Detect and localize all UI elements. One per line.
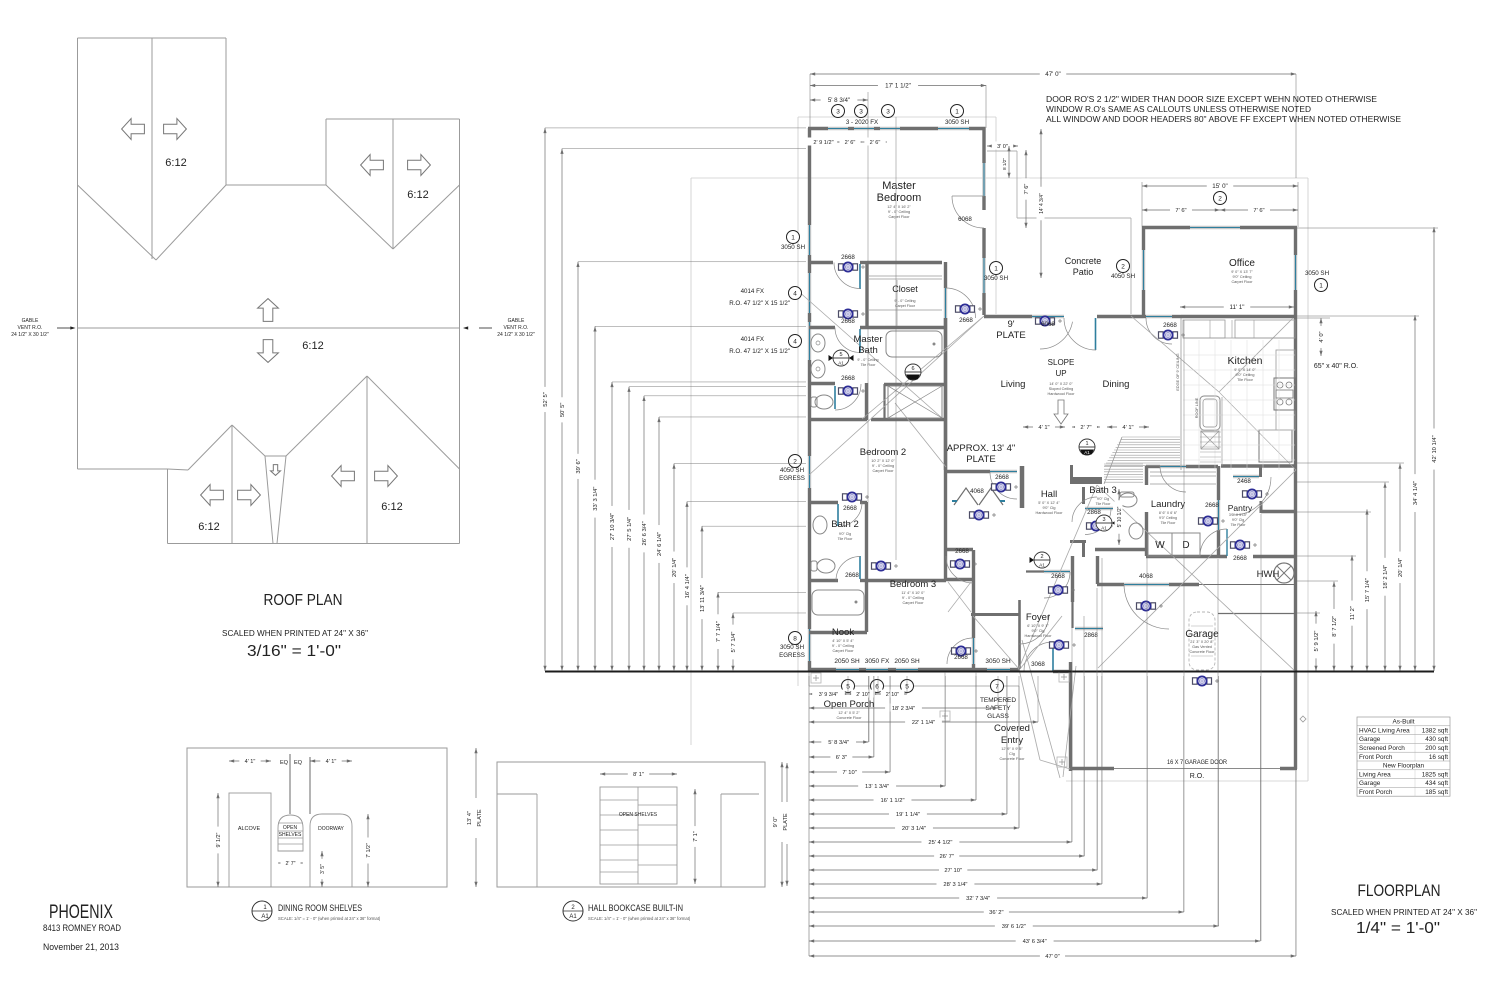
- bedroom2/3 separator: [867, 579, 946, 582]
- window 4050 SH office west: [1142, 250, 1145, 290]
- svg-text:430 sqft: 430 sqft: [1425, 736, 1448, 743]
- svg-text:9'0" Ceiling: 9'0" Ceiling: [1233, 275, 1252, 279]
- svg-text:Tile Floor: Tile Floor: [838, 537, 854, 541]
- svg-text:3/16" = 1'-0": 3/16" = 1'-0": [247, 643, 341, 660]
- garage south wall + garage door: [1070, 767, 1114, 770]
- svg-text:R.O. 47 1/2" X 15 1/2": R.O. 47 1/2" X 15 1/2": [729, 348, 790, 355]
- window 3050 SH north: [938, 127, 969, 130]
- svg-text:OPEN: OPEN: [283, 825, 298, 831]
- closet north wall: [867, 261, 942, 264]
- hall south wall: [946, 548, 973, 551]
- bath2 south wall: [809, 579, 838, 582]
- window 4050 SH egress bedroom2: [808, 456, 811, 488]
- blue door symbol 2: [839, 309, 858, 318]
- blue door symbol 11: [992, 482, 1011, 491]
- east exterior wall kitchen/garage: [1294, 318, 1297, 769]
- svg-text:2' 10": 2' 10": [886, 692, 900, 698]
- door arc garage 4068: [1124, 584, 1169, 629]
- door 4068 blue threshold: [1124, 583, 1169, 586]
- top dimension 47ft: [809, 74, 811, 128]
- door arc bath3: [1085, 509, 1111, 535]
- svg-text:7' 6": 7' 6": [1253, 208, 1264, 214]
- svg-text:24 1/2" X 30 1/2": 24 1/2" X 30 1/2": [11, 332, 49, 338]
- svg-text:6068: 6068: [958, 216, 972, 223]
- svg-text:11' 2": 11' 2": [1350, 606, 1356, 620]
- svg-text:18' 2 3/4": 18' 2 3/4": [892, 706, 915, 712]
- svg-text:Front Porch: Front Porch: [1359, 754, 1393, 761]
- svg-text:Screened Porch: Screened Porch: [1359, 745, 1405, 752]
- svg-text:Front Porch: Front Porch: [1359, 789, 1393, 796]
- svg-text:36' 2": 36' 2": [989, 910, 1003, 916]
- svg-text:9' - 0" Ceiling: 9' - 0" Ceiling: [888, 210, 910, 214]
- svg-text:8' 1": 8' 1": [633, 772, 644, 778]
- right gable ridge: [392, 119, 394, 249]
- svg-text:26' 7": 26' 7": [939, 854, 953, 860]
- svg-text:7' 1/2": 7' 1/2": [366, 843, 372, 858]
- svg-text:17' 1 1/2": 17' 1 1/2": [885, 83, 911, 90]
- svg-text:5' 10 1/2": 5' 10 1/2": [1117, 506, 1123, 527]
- wall hallway north: [809, 261, 833, 264]
- door arc bed3 b: [946, 556, 973, 583]
- top dimension 5-8.75: [867, 92, 869, 502]
- left gable ridge: [151, 38, 153, 259]
- toilet room east wall: [865, 383, 868, 420]
- svg-text:FLOORPLAN: FLOORPLAN: [1358, 882, 1441, 900]
- svg-text:7' 10": 7' 10": [842, 770, 856, 776]
- svg-text:4' 1": 4' 1": [1122, 425, 1133, 431]
- svg-text:27' 10 3/4": 27' 10 3/4": [610, 513, 616, 540]
- bottom-left gable: [231, 425, 233, 544]
- door arc toilet room: [835, 384, 861, 410]
- hall closet bifold doors 4068: [954, 488, 978, 505]
- door arc hall-foyer: [1044, 572, 1070, 598]
- svg-text:34' 4 1/4": 34' 4 1/4": [1413, 481, 1419, 505]
- svg-text:7' 6": 7' 6": [1024, 184, 1030, 195]
- svg-text:Master: Master: [882, 180, 916, 192]
- window 2050 SH b: [896, 668, 918, 671]
- svg-text:PLATE: PLATE: [783, 813, 789, 831]
- door 2868 bath3: [1085, 507, 1113, 510]
- bottom window callouts: [842, 680, 855, 693]
- svg-text:VENT R.O.: VENT R.O.: [504, 325, 529, 331]
- window 4050 SH office north: [1190, 226, 1240, 229]
- door arc hallway 2668: [834, 263, 860, 289]
- svg-text:32' 7 3/4": 32' 7 3/4": [966, 896, 990, 902]
- svg-text:65" x 40" R.O.: 65" x 40" R.O.: [1314, 363, 1358, 370]
- door arc living-hall: [990, 472, 1017, 499]
- svg-text:A1: A1: [838, 361, 844, 366]
- wall closet/bedroom east: [944, 262, 947, 288]
- svg-text:ALCOVE: ALCOVE: [238, 826, 261, 832]
- svg-text:4' 1": 4' 1": [1038, 425, 1049, 431]
- slope arrow hollow: [1054, 400, 1068, 424]
- svg-text:16 X 7 GARAGE DOOR: 16 X 7 GARAGE DOOR: [1167, 759, 1227, 766]
- svg-text:4' 10" X 5' 4": 4' 10" X 5' 4": [832, 639, 854, 643]
- svg-text:Tile Floor: Tile Floor: [1237, 378, 1253, 382]
- svg-text:27' 10": 27' 10": [944, 868, 962, 874]
- roof plan outline: [78, 37, 227, 39]
- laundry north wall: [1146, 465, 1160, 468]
- svg-text:2' 7": 2' 7": [285, 861, 295, 867]
- svg-text:4: 4: [793, 290, 797, 297]
- bath3 toilet: [1119, 493, 1137, 507]
- svg-text:PHOENIX: PHOENIX: [49, 902, 113, 923]
- slider 6068 at living: [1032, 315, 1064, 318]
- svg-text:4068: 4068: [1139, 573, 1153, 580]
- window 3050 SH east master bedroom: [982, 258, 985, 293]
- svg-text:SAFETY: SAFETY: [985, 705, 1011, 712]
- svg-text:Kitchen: Kitchen: [1227, 355, 1262, 367]
- bath2 sink: [813, 516, 827, 534]
- master bath south wall: [809, 418, 867, 421]
- right side extension lines: [1294, 317, 1330, 319]
- garage west exterior wall lower: [1069, 662, 1072, 771]
- office west wall: [1142, 227, 1145, 250]
- closet shelves lines: [869, 275, 942, 277]
- svg-text:Garage: Garage: [1185, 629, 1219, 640]
- door arc master bath: [835, 328, 860, 353]
- svg-text:Laundry: Laundry: [1151, 499, 1186, 510]
- svg-text:R.O. 47 1/2" X 15 1/2": R.O. 47 1/2" X 15 1/2": [729, 300, 790, 307]
- section marker 3/A1 bath3: [1096, 515, 1117, 531]
- blue door symbol 9: [1036, 316, 1055, 325]
- door 2668 living-hall: [990, 470, 1017, 473]
- svg-text:16' 1 1/2": 16' 1 1/2": [880, 798, 904, 804]
- washer dryer: [1148, 533, 1172, 556]
- dining shelves dims: [229, 760, 271, 762]
- svg-text:PLATE: PLATE: [996, 330, 1025, 341]
- svg-text:6:12: 6:12: [381, 501, 402, 513]
- pantry door leaf: [1226, 529, 1228, 556]
- bath2 north wall: [809, 501, 838, 504]
- svg-text:24' 6 1/4": 24' 6 1/4": [657, 532, 663, 556]
- svg-text:6:12: 6:12: [302, 340, 323, 352]
- svg-text:18' 2 1/4": 18' 2 1/4": [1383, 565, 1389, 589]
- svg-text:2' 7": 2' 7": [1080, 425, 1091, 431]
- bookcase box: [600, 787, 677, 884]
- bottom dims: [809, 741, 868, 743]
- svg-text:A1: A1: [1101, 526, 1107, 531]
- bath3 east wall: [1145, 466, 1148, 485]
- door 2668 laundry east: [1217, 500, 1220, 530]
- 9-0 plate vertical dim bottom left: [786, 763, 788, 886]
- svg-text:33' 3 1/4": 33' 3 1/4": [593, 487, 599, 511]
- svg-text:7' 7 1/4": 7' 7 1/4": [716, 621, 722, 642]
- svg-text:APPROX. 13' 4": APPROX. 13' 4": [947, 443, 1016, 454]
- svg-text:Tile Floor: Tile Floor: [1096, 502, 1112, 506]
- svg-text:Pantry: Pantry: [1228, 503, 1253, 513]
- section marker 2/A1 hall: [1030, 552, 1051, 568]
- svg-text:OPEN SHELVES: OPEN SHELVES: [619, 812, 658, 818]
- blue door symbol 16: [1137, 601, 1156, 610]
- blue door symbol 17: [1193, 676, 1212, 685]
- svg-text:8 1/2": 8 1/2": [1002, 158, 1007, 170]
- callout circles top: [832, 105, 845, 118]
- center ridge line: [78, 327, 460, 329]
- svg-text:13' 4": 13' 4": [467, 811, 473, 825]
- door leaf 2668 hallway: [859, 264, 861, 289]
- svg-text:Bedroom 3: Bedroom 3: [890, 579, 936, 590]
- bath2 east wall: [865, 502, 868, 580]
- svg-text:2: 2: [793, 458, 797, 465]
- right side long dims: [1315, 611, 1317, 671]
- entry west wall: [1018, 600, 1021, 669]
- svg-text:Concrete Floor: Concrete Floor: [1189, 650, 1215, 654]
- door 2668 closet-hall: [944, 288, 947, 318]
- svg-text:3: 3: [859, 108, 863, 115]
- svg-text:UP: UP: [1055, 369, 1066, 378]
- master bath north wall: [809, 326, 835, 329]
- svg-text:3' 5": 3' 5": [320, 864, 326, 874]
- svg-text:1: 1: [791, 234, 795, 241]
- window 3050 SH west @ master bedroom: [808, 225, 811, 255]
- svg-text:Tile Floor: Tile Floor: [1161, 521, 1177, 525]
- svg-text:14' 0" X 22' 0": 14' 0" X 22' 0": [1049, 382, 1073, 386]
- svg-text:Concrete Floor: Concrete Floor: [999, 757, 1025, 761]
- east wall master bedroom: [982, 128, 985, 163]
- svg-text:2050 SH: 2050 SH: [834, 658, 860, 665]
- svg-text:SLOPE: SLOPE: [1048, 358, 1075, 367]
- south exterior wall nook/bedroom3/porch: [809, 668, 836, 671]
- blue door symbol 12: [1087, 521, 1106, 530]
- svg-text:Concrete: Concrete: [1065, 256, 1102, 266]
- svg-text:A1: A1: [261, 914, 269, 920]
- bath3 sink: [1129, 523, 1143, 539]
- hall small dims 4-1 / 2-7 / 4-1: [1023, 426, 1065, 428]
- svg-text:20' 1/4": 20' 1/4": [1398, 558, 1404, 577]
- svg-text:Bedroom: Bedroom: [877, 192, 922, 204]
- svg-text:9' 1/2": 9' 1/2": [216, 832, 222, 847]
- small vertical dims patio: [1008, 146, 1010, 178]
- window 2020 FX 1: [828, 127, 848, 130]
- bath2 toilet: [817, 559, 835, 573]
- east side callouts: [990, 262, 1003, 275]
- svg-text:9'0" Clg: 9'0" Clg: [1031, 629, 1044, 633]
- roofline diagonal living valley: [809, 316, 984, 475]
- svg-text:39' 6 1/2": 39' 6 1/2": [1002, 924, 1026, 930]
- svg-text:20' 3 1/4": 20' 3 1/4": [902, 826, 926, 832]
- bottom small dims under porch: [809, 693, 848, 695]
- door arc bed3 a: [836, 557, 860, 581]
- stove: [1274, 378, 1295, 410]
- svg-text:HALL BOOKCASE BUILT-IN: HALL BOOKCASE BUILT-IN: [588, 903, 683, 914]
- blue door symbol 10: [970, 510, 989, 519]
- window 4014 FX west lower: [808, 322, 811, 360]
- door 2868 foyer-garage: [1075, 627, 1103, 630]
- svg-text:2668: 2668: [954, 654, 968, 661]
- dishwasher X: [1201, 431, 1219, 449]
- svg-text:4068: 4068: [970, 488, 984, 495]
- svg-text:11' 1": 11' 1": [1230, 304, 1245, 311]
- svg-text:Carpet Floor: Carpet Floor: [902, 601, 924, 605]
- patio door 6068 opening arc: [952, 196, 984, 228]
- hall bookcase title: [563, 901, 583, 921]
- svg-text:12' 4" X 16' 2": 12' 4" X 16' 2": [887, 205, 911, 209]
- svg-text:15' 7 1/4": 15' 7 1/4": [1365, 578, 1371, 602]
- kitchen west edge: [1180, 318, 1182, 470]
- blue door symbol 3: [839, 386, 858, 395]
- svg-text:12' 9" X 9' 5": 12' 9" X 9' 5": [1001, 747, 1023, 751]
- toilet room north wall: [809, 382, 835, 385]
- blue door symbol 7: [951, 559, 970, 568]
- svg-text:Carpet Floor: Carpet Floor: [1231, 280, 1253, 284]
- svg-text:3050 SH: 3050 SH: [984, 275, 1008, 282]
- svg-text:2668: 2668: [1205, 502, 1219, 509]
- svg-text:Clg: Clg: [1009, 752, 1015, 756]
- svg-text:ROOF PLAN: ROOF PLAN: [264, 592, 343, 609]
- svg-text:200 sqft: 200 sqft: [1425, 745, 1448, 752]
- svg-text:New Floorplan: New Floorplan: [1383, 763, 1425, 770]
- svg-text:Living Area: Living Area: [1359, 771, 1391, 778]
- svg-text:52' 5": 52' 5": [543, 392, 549, 406]
- blue door symbol 15: [1243, 489, 1262, 498]
- svg-text:November 21, 2013: November 21, 2013: [43, 942, 119, 953]
- svg-text:D: D: [1182, 540, 1189, 551]
- svg-text:434 sqft: 434 sqft: [1425, 780, 1448, 787]
- svg-text:PLATE: PLATE: [477, 809, 483, 827]
- svg-text:Hall: Hall: [1041, 489, 1057, 500]
- nook north wall: [809, 631, 867, 634]
- svg-text:6: 6: [911, 366, 914, 372]
- svg-text:SCALED WHEN PRINTED AT 24" X 3: SCALED WHEN PRINTED AT 24" X 36": [1331, 908, 1477, 917]
- svg-text:11' 4" X 10' 0": 11' 4" X 10' 0": [901, 591, 925, 595]
- door arc bath3: [1072, 497, 1097, 522]
- kitchen tile floor hatch: [1183, 340, 1295, 470]
- nook/bed3 wall upper: [865, 580, 868, 632]
- svg-text:5' 9 1/2": 5' 9 1/2": [1314, 631, 1320, 652]
- svg-text:WINDOW R.O's SAME AS CALLOUTS: WINDOW R.O's SAME AS CALLOUTS UNLESS OTH…: [1046, 104, 1311, 114]
- svg-text:Covered: Covered: [994, 723, 1030, 734]
- svg-text:9': 9': [1007, 319, 1014, 330]
- svg-text:DOORWAY: DOORWAY: [318, 826, 344, 832]
- svg-text:3 - 2020 FX: 3 - 2020 FX: [846, 119, 878, 126]
- window 2020 FX 2: [854, 127, 874, 130]
- foyer west low wall: [971, 613, 1019, 616]
- stair base block: [1070, 477, 1102, 484]
- svg-text:2468: 2468: [1237, 478, 1251, 485]
- svg-text:3050 SH: 3050 SH: [1305, 270, 1329, 277]
- open porch outline: [809, 685, 1019, 687]
- svg-text:2: 2: [1121, 263, 1125, 270]
- blue door symbol 19: [1049, 585, 1068, 594]
- counter divider lines: [1209, 320, 1211, 338]
- small diamond marker right: [1300, 716, 1306, 722]
- svg-text:20' 1/4": 20' 1/4": [672, 558, 678, 577]
- svg-text:Garage: Garage: [1359, 780, 1381, 787]
- svg-text:9'0" Ceiling: 9'0" Ceiling: [1159, 516, 1177, 520]
- svg-text:9' - 0" Ceiling: 9' - 0" Ceiling: [894, 299, 915, 303]
- bedroom3 east wall: [944, 470, 947, 580]
- svg-text:EGRESS: EGRESS: [779, 475, 805, 482]
- svg-text:4' 0": 4' 0": [1319, 331, 1325, 342]
- svg-text:3050 SH: 3050 SH: [945, 119, 969, 126]
- svg-text:9' 0" X 13' 7": 9' 0" X 13' 7": [1231, 270, 1253, 274]
- svg-text:43' 6 3/4": 43' 6 3/4": [1023, 939, 1047, 945]
- svg-text:3050 SH: 3050 SH: [781, 244, 805, 251]
- svg-text:6:12: 6:12: [198, 521, 219, 533]
- svg-text:22' 1 1/4": 22' 1 1/4": [912, 720, 935, 726]
- blue door symbol 8: [952, 646, 971, 655]
- living west wall upper: [944, 420, 947, 470]
- svg-text:2: 2: [1040, 554, 1043, 560]
- svg-text:26' 6 3/4": 26' 6 3/4": [642, 521, 648, 545]
- concrete patio outline: [987, 150, 1017, 152]
- blue door symbol 1: [839, 262, 858, 271]
- north exterior wall master bedroom: [808, 127, 828, 130]
- closet west wall: [865, 262, 868, 327]
- survey cross markers: [811, 673, 821, 683]
- sqft table: [1357, 717, 1450, 796]
- svg-text:7: 7: [995, 683, 999, 690]
- svg-text:21' 3" X 20' 8": 21' 3" X 20' 8": [1190, 640, 1214, 644]
- svg-text:HWH: HWH: [1257, 569, 1280, 580]
- HWH circle: [1274, 563, 1294, 583]
- svg-text:5' 8 3/4": 5' 8 3/4": [828, 97, 850, 104]
- svg-text:4: 4: [793, 338, 797, 345]
- svg-text:8' 7 1/2": 8' 7 1/2": [1332, 616, 1338, 637]
- bath3 south wall: [1095, 548, 1146, 551]
- bedroom3 SE wall: [972, 550, 975, 638]
- mini gable: [265, 455, 286, 457]
- svg-text:EDGE OF 9' CEILING: EDGE OF 9' CEILING: [1176, 353, 1180, 390]
- svg-text:39' 6": 39' 6": [576, 459, 582, 473]
- section marker 1/A1 living: [1079, 439, 1095, 455]
- blue door symbol 14: [1231, 540, 1250, 549]
- blue door symbol 6: [872, 561, 891, 570]
- svg-text:2868: 2868: [1084, 632, 1098, 639]
- svg-text:Tile Floor: Tile Floor: [1231, 523, 1247, 527]
- svg-text:9'0" Clg: 9'0" Clg: [839, 532, 851, 536]
- svg-text:47' 0": 47' 0": [1045, 71, 1060, 78]
- window master bedroom east: [982, 163, 985, 196]
- office east wall: [1294, 227, 1297, 255]
- west wall callouts: [787, 231, 800, 244]
- roofline diagonals kitchen: [1131, 316, 1219, 392]
- svg-text:PLATE: PLATE: [966, 454, 995, 465]
- svg-text:Sloped Ceiling: Sloped Ceiling: [1049, 387, 1074, 391]
- svg-text:3'6" X 5'10": 3'6" X 5'10": [1229, 513, 1248, 517]
- svg-text:A1: A1: [1039, 563, 1045, 568]
- svg-text:13' 1 3/4": 13' 1 3/4": [865, 784, 889, 790]
- door 2668 hall-foyer: [1044, 570, 1070, 573]
- svg-text:1/4" = 1'-0": 1/4" = 1'-0": [1356, 920, 1440, 937]
- svg-text:25' 4 1/2": 25' 4 1/2": [928, 840, 952, 846]
- car outline in garage: [1189, 612, 1215, 670]
- svg-text:4' 1": 4' 1": [245, 759, 256, 765]
- laundry shelf lines: [1150, 471, 1216, 473]
- svg-text:2668: 2668: [955, 548, 969, 555]
- door arc 6068 living: [1040, 322, 1073, 349]
- svg-text:GABLE: GABLE: [508, 318, 525, 324]
- svg-text:5' 0" X 12' 4": 5' 0" X 12' 4": [1038, 501, 1060, 505]
- top dimension 17-1.5: [985, 85, 987, 128]
- svg-text:A1: A1: [569, 914, 577, 920]
- office top dims: [1141, 182, 1143, 227]
- svg-text:9'0" Clg: 9'0" Clg: [1042, 506, 1055, 510]
- covered entry outline: [1019, 669, 1040, 760]
- svg-text:Bath 3: Bath 3: [1089, 485, 1116, 496]
- bath3 5-10 dim: [1118, 489, 1120, 545]
- alcove opening: [229, 793, 271, 887]
- svg-text:EGRESS: EGRESS: [779, 652, 805, 659]
- svg-text:Carpet Floor: Carpet Floor: [872, 469, 894, 473]
- svg-text:3050 FX: 3050 FX: [865, 658, 890, 665]
- master bath tub: [886, 331, 942, 357]
- porch-east wall w 3050SH window: [973, 668, 987, 671]
- svg-text:3: 3: [886, 108, 890, 115]
- svg-text:6' 10" X 9' 1": 6' 10" X 9' 1": [1027, 624, 1049, 628]
- door arc stair closet 2468: [1233, 477, 1271, 515]
